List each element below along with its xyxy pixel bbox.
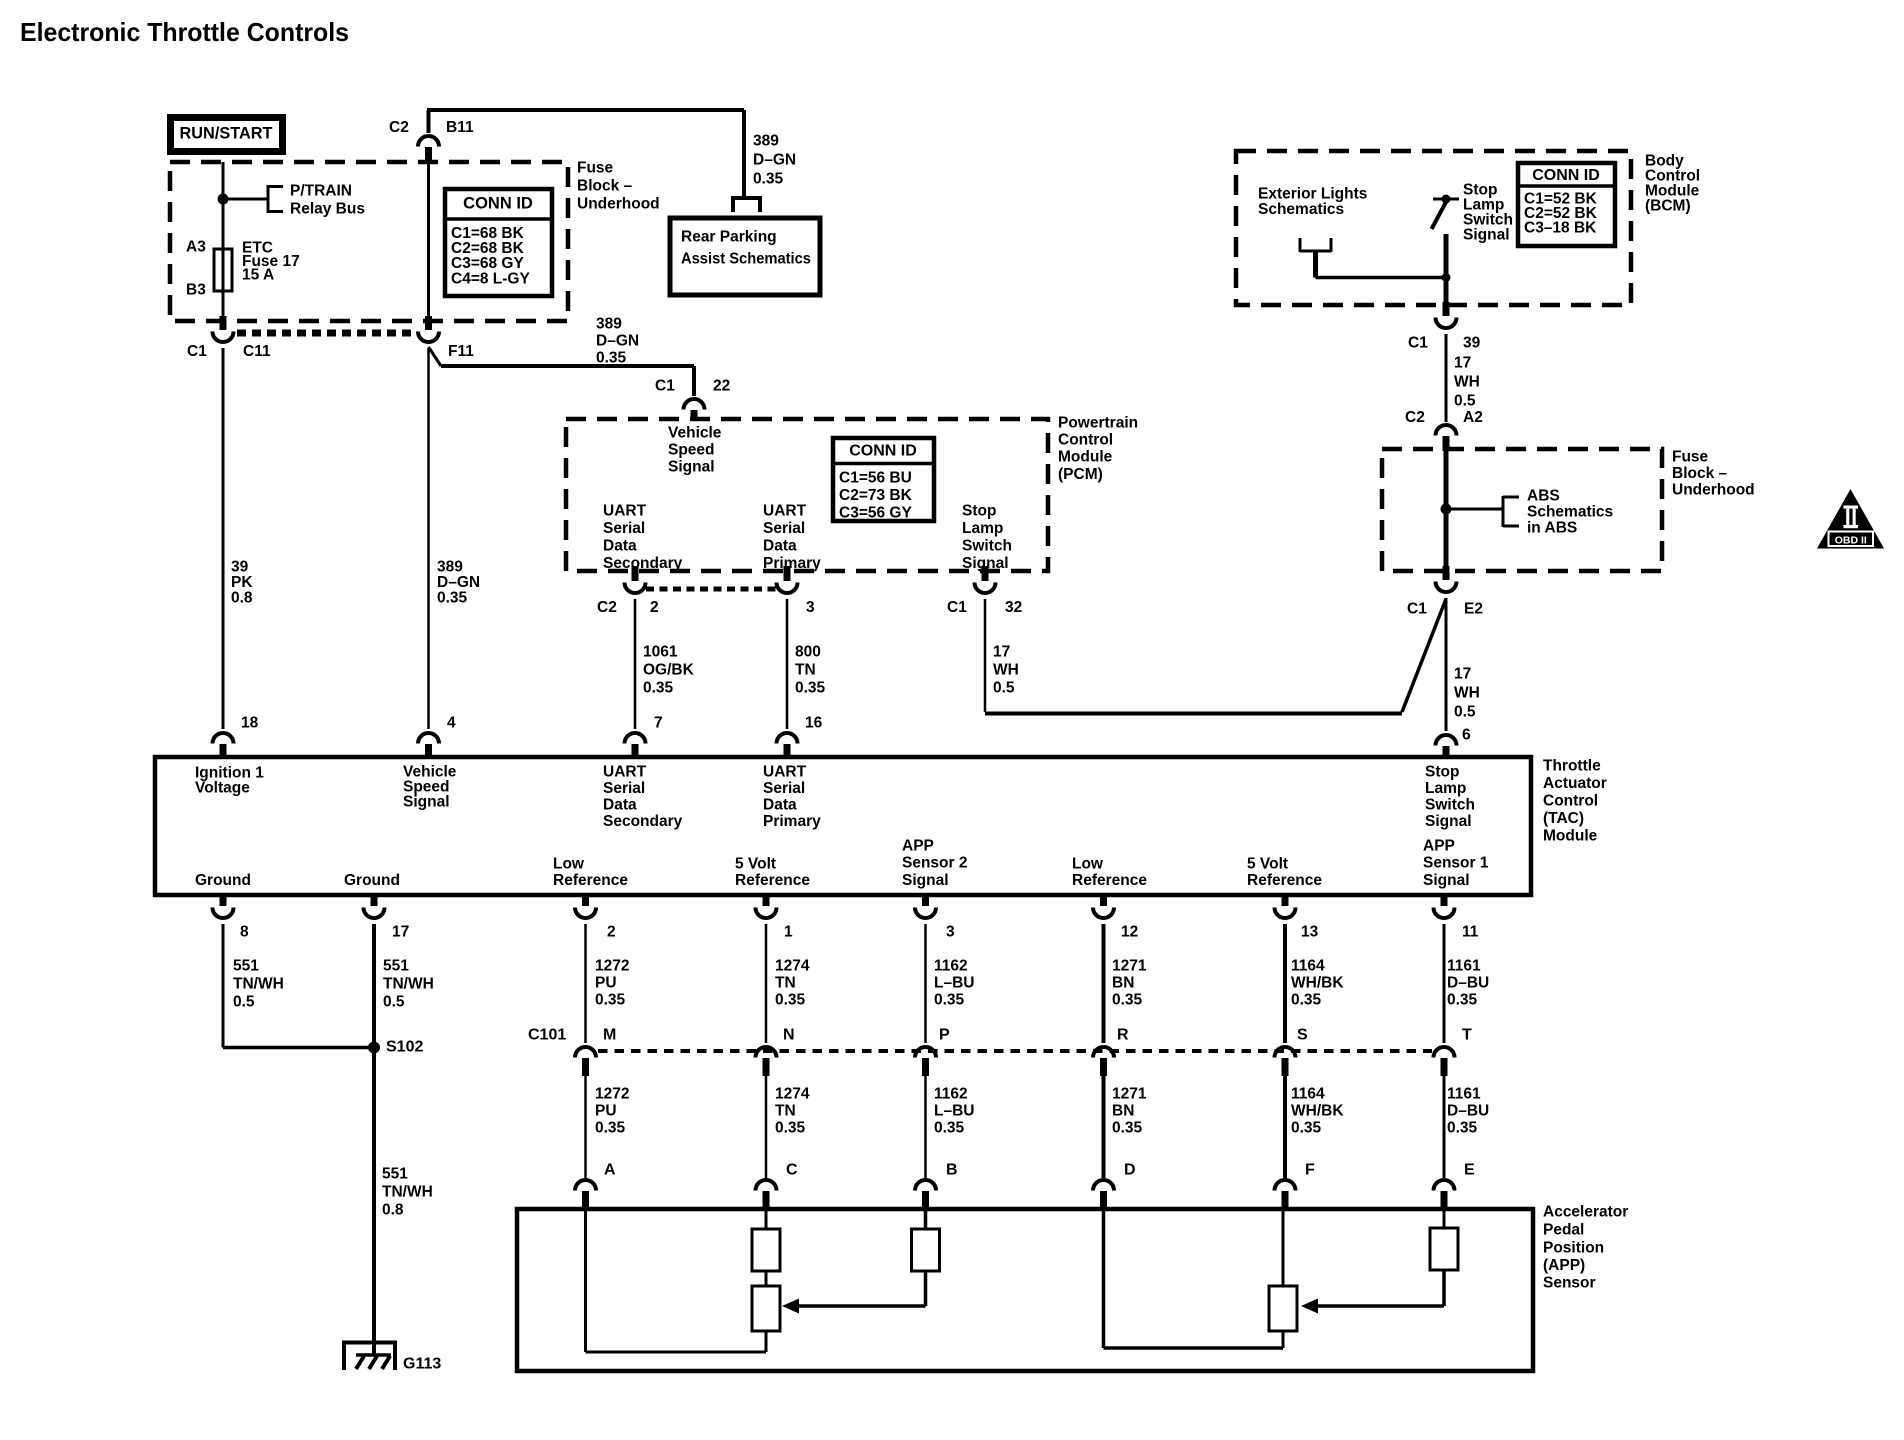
dotted connector tie line C11-F11 [237, 330, 417, 337]
svg-text:Block –: Block – [1672, 465, 1728, 482]
svg-text:Ground: Ground [195, 872, 251, 889]
svg-text:TN: TN [775, 974, 796, 991]
connector C1/E2 (fuse block right output) [1436, 566, 1457, 592]
svg-text:TN: TN [795, 661, 816, 678]
svg-text:7: 7 [654, 714, 663, 731]
connector C101 terminal T [1434, 1047, 1455, 1076]
potentiometer wiper target: APP sensor 2 [752, 1286, 780, 1352]
label: 551 TN/WH 0.5 (pin 8) [233, 957, 284, 1010]
svg-text:C: C [786, 1162, 798, 1179]
svg-text:Voltage: Voltage [195, 779, 250, 796]
terminal bracket into rear parking assist [731, 198, 762, 212]
svg-text:Accelerator: Accelerator [1543, 1203, 1628, 1220]
connector 18 (TAC ignition input) [213, 733, 234, 759]
label: 1164 WH/BK 0.35 (upper) [1291, 957, 1344, 1008]
svg-text:Data: Data [603, 796, 637, 813]
svg-text:S: S [1297, 1027, 1308, 1044]
connector C1/22 (PCM vehicle speed input) [684, 399, 705, 421]
svg-text:1161: 1161 [1447, 957, 1481, 974]
svg-text:0.35: 0.35 [1291, 1119, 1322, 1136]
wire: 389 D-GN down to TAC pin 4 [427, 348, 430, 729]
svg-text:Module: Module [1058, 448, 1113, 465]
svg-text:389: 389 [753, 132, 779, 149]
svg-text:Signal: Signal [902, 872, 949, 889]
svg-text:TN: TN [775, 1102, 796, 1119]
svg-text:Primary: Primary [763, 813, 821, 830]
svg-text:CONN ID: CONN ID [849, 443, 917, 460]
svg-text:UART: UART [603, 502, 647, 519]
svg-text:Block –: Block – [577, 177, 633, 194]
svg-text:C1: C1 [947, 599, 967, 616]
svg-text:Reference: Reference [1072, 872, 1147, 889]
svg-text:OBD II: OBD II [1835, 535, 1867, 547]
label: Exterior Lights Schematics [1258, 185, 1367, 218]
svg-text:1162: 1162 [934, 1085, 968, 1102]
label: 1274 TN 0.35 (lower) [775, 1085, 810, 1136]
svg-text:0.5: 0.5 [1454, 392, 1476, 409]
label: UART Serial Data Secondary (TAC) [603, 763, 683, 830]
svg-text:39: 39 [231, 558, 249, 575]
label: APP Sensor 2 Signal [902, 837, 967, 889]
svg-text:32: 32 [1005, 599, 1022, 616]
svg-text:1271: 1271 [1112, 1085, 1147, 1102]
svg-text:WH: WH [993, 661, 1019, 678]
label: 389 D-GN 0.35 (top) [753, 132, 796, 187]
connector APP terminal B [915, 1180, 936, 1211]
connector C2/A2 (fuse block underhood right) [1436, 425, 1457, 451]
svg-text:D: D [1124, 1162, 1136, 1179]
svg-text:5 Volt: 5 Volt [1247, 855, 1288, 872]
RUN/START hot-in-run box [171, 118, 283, 152]
label: 1164 WH/BK 0.35 (lower) [1291, 1085, 1344, 1136]
svg-text:Exterior Lights: Exterior Lights [1258, 185, 1367, 202]
svg-text:Control: Control [1058, 431, 1113, 448]
svg-text:T: T [1462, 1027, 1472, 1044]
wire: 1271 BN 0.35 (C101 to APP D) [1102, 1074, 1106, 1178]
connector C101 terminal P [915, 1047, 936, 1076]
svg-text:0.5: 0.5 [233, 993, 255, 1010]
svg-text:WH: WH [1454, 373, 1480, 390]
splice S102 [368, 1042, 380, 1054]
wire: 17 WH from E2 down to TAC pin 6 [1445, 598, 1448, 731]
svg-text:15 A: 15 A [242, 266, 274, 283]
svg-text:Position: Position [1543, 1239, 1604, 1256]
svg-text:Primary: Primary [763, 555, 821, 572]
connector C2/2 (PCM uart secondary) [625, 566, 646, 593]
label: UART Serial Data Primary (PCM) [763, 502, 821, 572]
wire: 1164 WH/BK 0.35 (TAC to C101) [1283, 924, 1287, 1043]
svg-text:(PCM): (PCM) [1058, 466, 1103, 483]
svg-text:1164: 1164 [1291, 1085, 1325, 1102]
label: 1272 PU 0.35 (upper) [595, 957, 629, 1008]
connector C2/B11 (fuse block underhood) [418, 136, 439, 164]
connector 12 (TAC bottom) [1093, 893, 1114, 918]
wire: 17 WH stop lamp from PCM pin 32 [985, 599, 1402, 714]
svg-text:Sensor 1: Sensor 1 [1423, 854, 1489, 871]
svg-text:D–BU: D–BU [1447, 974, 1489, 991]
svg-text:Schematics: Schematics [1258, 201, 1344, 218]
wire: 1271 BN 0.35 (TAC to C101) [1102, 924, 1106, 1043]
svg-text:BN: BN [1112, 974, 1134, 991]
svg-text:Signal: Signal [668, 458, 715, 475]
wire: stop lamp switch output (BCM internal) [1444, 234, 1449, 308]
svg-text:D–GN: D–GN [753, 151, 796, 168]
svg-text:PU: PU [595, 1102, 617, 1119]
label: 800 TN 0.35 [795, 643, 826, 696]
wire: 389 D-GN feed from fuse block to rear parking (top run) [427, 110, 744, 133]
svg-text:P: P [939, 1027, 950, 1044]
svg-text:5 Volt: 5 Volt [735, 855, 776, 872]
label: Fuse Block - Underhood (left) [577, 159, 660, 212]
svg-text:C1: C1 [1408, 334, 1428, 351]
svg-text:C101: C101 [528, 1027, 566, 1044]
svg-text:1274: 1274 [775, 1085, 810, 1102]
svg-text:Stop: Stop [1425, 763, 1459, 780]
wire: 800 TN uart primary [786, 599, 789, 729]
connector C1/C11 (ignition feed) [213, 316, 234, 342]
svg-text:389: 389 [437, 558, 463, 575]
label: 1272 PU 0.35 (lower) [595, 1085, 629, 1136]
svg-text:Actuator: Actuator [1543, 775, 1607, 792]
wire: 389 D-GN inside fuse block (B11 to F11) [427, 160, 430, 320]
label: ABS Schematics in ABS [1527, 487, 1613, 536]
svg-text:551: 551 [383, 957, 409, 974]
svg-text:Schematics: Schematics [1527, 503, 1613, 520]
svg-text:S102: S102 [386, 1039, 423, 1056]
label: Throttle Actuator Control (TAC) Module [1543, 757, 1607, 844]
svg-text:1274: 1274 [775, 957, 810, 974]
label: UART Serial Data Secondary (PCM) [603, 502, 683, 572]
svg-text:0.5: 0.5 [383, 993, 405, 1010]
label: P/TRAIN Relay Bus [290, 182, 365, 217]
svg-text:Fuse: Fuse [577, 159, 614, 176]
svg-text:1: 1 [784, 923, 793, 940]
label: Accelerator Pedal Position (APP) Sensor [1543, 1203, 1628, 1291]
svg-text:16: 16 [805, 714, 823, 731]
dashed connector line C101 [598, 1049, 1432, 1053]
svg-text:A: A [604, 1162, 616, 1179]
svg-text:Signal: Signal [1423, 872, 1470, 889]
wire: stop lamp feed through fuse block (right) [1444, 451, 1449, 566]
svg-text:1271: 1271 [1112, 957, 1147, 974]
svg-text:(TAC): (TAC) [1543, 810, 1584, 827]
svg-text:0.35: 0.35 [437, 589, 468, 606]
svg-text:Serial: Serial [763, 520, 805, 537]
wire: 1274 TN 0.35 (TAC to C101) [765, 924, 768, 1043]
svg-text:17: 17 [993, 643, 1010, 660]
svg-text:Vehicle: Vehicle [668, 424, 722, 441]
label: 1271 BN 0.35 (lower) [1112, 1085, 1147, 1136]
svg-text:Signal: Signal [1463, 226, 1510, 243]
svg-text:1162: 1162 [934, 957, 968, 974]
label: 17 WH 0.5 (PCM pin 32) [993, 643, 1019, 696]
svg-text:Pedal: Pedal [1543, 1221, 1584, 1238]
connector APP terminal D [1093, 1180, 1114, 1211]
wire: 1161 D–BU 0.35 (C101 to APP E) [1443, 1074, 1446, 1178]
svg-text:Serial: Serial [603, 520, 645, 537]
svg-text:E2: E2 [1464, 600, 1483, 617]
svg-text:D–GN: D–GN [437, 574, 480, 591]
svg-text:Electronic Throttle Controls: Electronic Throttle Controls [20, 17, 349, 47]
connector C101 terminal N [756, 1047, 777, 1076]
svg-text:0.8: 0.8 [231, 589, 253, 606]
svg-text:N: N [783, 1027, 795, 1044]
wire: drop to rear parking assist [742, 110, 746, 196]
svg-text:Assist Schematics: Assist Schematics [681, 250, 811, 267]
label: 389 D-GN 0.35 (vertical run) [437, 558, 480, 606]
wire: 17 WH from BCM to fuse block [1445, 334, 1448, 422]
svg-text:C2: C2 [1405, 409, 1425, 426]
svg-text:UART: UART [763, 502, 807, 519]
svg-text:Sensor 2: Sensor 2 [902, 854, 967, 871]
svg-text:13: 13 [1301, 923, 1319, 940]
connector 2 (TAC bottom) [575, 893, 596, 918]
junction dot to ABS branch [1441, 504, 1452, 515]
svg-text:6: 6 [1462, 726, 1471, 743]
svg-text:Reference: Reference [553, 872, 628, 889]
svg-text:L–BU: L–BU [934, 974, 974, 991]
svg-text:in ABS: in ABS [1527, 519, 1577, 536]
wire: 1162 L–BU 0.35 (C101 to APP B) [924, 1074, 927, 1178]
svg-text:PU: PU [595, 974, 617, 991]
svg-text:Relay Bus: Relay Bus [290, 200, 365, 217]
connector 11 (TAC bottom) [1434, 893, 1455, 918]
svg-text:M: M [603, 1027, 616, 1044]
OBD II marker symbol [1817, 489, 1884, 549]
label: Vehicle Speed Signal (TAC) [403, 763, 457, 810]
svg-text:17: 17 [1454, 665, 1471, 682]
stop lamp switch (BCM internal) [1432, 195, 1460, 230]
svg-text:1272: 1272 [595, 957, 629, 974]
svg-text:8: 8 [240, 923, 249, 940]
wire + bracket to ABS schematics [1446, 496, 1519, 527]
connector 1 (TAC bottom) [756, 893, 777, 918]
connector 16 (TAC uart primary) [777, 733, 798, 759]
label: Stop Lamp Switch Signal (BCM) [1463, 181, 1513, 243]
P/TRAIN relay bus terminal bracket [268, 185, 283, 213]
svg-text:Sensor: Sensor [1543, 1274, 1596, 1291]
connector 6 (TAC stop lamp input) [1436, 735, 1457, 759]
svg-text:1161: 1161 [1447, 1085, 1481, 1102]
svg-text:2: 2 [607, 923, 616, 940]
svg-text:UART: UART [603, 763, 647, 780]
label: Ignition 1 Voltage [195, 764, 264, 796]
wire: 389 D-GN branch from F11 to PCM C1/22 [429, 347, 695, 396]
svg-text:3: 3 [946, 923, 955, 940]
Rear Parking Assist Schematics box [670, 218, 820, 295]
label: 1161 D–BU 0.35 (lower) [1447, 1085, 1489, 1136]
svg-text:E: E [1464, 1162, 1475, 1179]
wire: 1272 PU 0.35 (TAC to C101) [584, 924, 587, 1043]
label: 1271 BN 0.35 (upper) [1112, 957, 1147, 1008]
wire: 1161 D–BU 0.35 (TAC to C101) [1443, 924, 1446, 1043]
Body Control Module dashed box [1236, 151, 1631, 305]
svg-text:C2=73 BK: C2=73 BK [839, 487, 913, 504]
svg-text:0.35: 0.35 [595, 991, 626, 1008]
svg-text:Speed: Speed [668, 441, 715, 458]
svg-text:Fuse: Fuse [1672, 448, 1709, 465]
label: 5 Volt Reference (TAC pin 1) [735, 855, 810, 889]
svg-text:Switch: Switch [962, 537, 1012, 554]
svg-text:Underhood: Underhood [1672, 481, 1755, 498]
svg-text:C1: C1 [1407, 600, 1427, 617]
svg-text:BN: BN [1112, 1102, 1134, 1119]
svg-text:17: 17 [1454, 354, 1471, 371]
wire: 1274 TN 0.35 (C101 to APP C) [765, 1074, 768, 1178]
fuse block underhood (left) dashed box [170, 162, 568, 321]
svg-text:C4=8 L-GY: C4=8 L-GY [451, 270, 530, 287]
svg-text:0.5: 0.5 [993, 679, 1015, 696]
label: 1161 D–BU 0.35 (upper) [1447, 957, 1489, 1008]
svg-text:0.35: 0.35 [934, 1119, 965, 1136]
wire: 551 TN/WH ground pin 8 [223, 924, 374, 1048]
wire: ignition feed inside fuse block (x=223) [222, 162, 225, 319]
connector 8 (TAC bottom) [213, 893, 234, 918]
label: 551 TN/WH 0.8 [382, 1165, 433, 1218]
fuse ETC Fuse 17 15 A (symbol) [214, 249, 232, 291]
svg-text:R: R [1117, 1027, 1129, 1044]
svg-text:0.35: 0.35 [795, 679, 826, 696]
label: 1162 L–BU 0.35 (upper) [934, 957, 974, 1008]
resistor + wiper arm: APP sensor 1 signal (E) [1301, 1209, 1458, 1314]
connector APP terminal A [575, 1180, 596, 1211]
svg-text:389: 389 [596, 315, 622, 332]
svg-text:WH: WH [1454, 684, 1480, 701]
svg-text:CONN ID: CONN ID [463, 195, 533, 213]
connector 4 (TAC vss input) [418, 733, 439, 759]
svg-text:TN/WH: TN/WH [383, 975, 434, 992]
svg-text:1272: 1272 [595, 1085, 629, 1102]
svg-text:Reference: Reference [1247, 872, 1322, 889]
label: APP Sensor 1 Signal [1423, 837, 1489, 889]
wire: 551 TN/WH to ground G113 [372, 1049, 376, 1355]
svg-text:0.35: 0.35 [753, 170, 784, 187]
svg-text:B11: B11 [446, 119, 474, 136]
connector C1/32 (PCM stop lamp) [975, 566, 996, 593]
dotted connector tie line PCM pins 2-3 [646, 587, 776, 592]
svg-text:L–BU: L–BU [934, 1102, 974, 1119]
svg-text:A2: A2 [1463, 409, 1483, 426]
svg-text:TN/WH: TN/WH [382, 1183, 433, 1200]
svg-text:18: 18 [241, 714, 259, 731]
fuse block underhood (right) dashed box [1382, 449, 1662, 571]
svg-text:Serial: Serial [763, 780, 805, 797]
svg-text:F: F [1305, 1162, 1315, 1179]
label: UART Serial Data Primary (TAC) [763, 763, 821, 830]
svg-text:C3=56 GY: C3=56 GY [839, 504, 912, 521]
label: Stop Lamp Switch Signal (TAC) [1425, 763, 1475, 830]
svg-text:Data: Data [763, 796, 797, 813]
connector 13 (TAC bottom) [1275, 893, 1296, 918]
wire: APP sensor 2 low reference (A) [586, 1209, 767, 1352]
svg-text:0.35: 0.35 [775, 991, 806, 1008]
wire: 1164 WH/BK 0.35 (C101 to APP F) [1283, 1074, 1287, 1178]
svg-text:Low: Low [553, 855, 585, 872]
label: Body Control Module (BCM) [1645, 152, 1700, 214]
wire: APP sensor 1 low reference (D) [1104, 1209, 1284, 1348]
svg-text:800: 800 [795, 643, 821, 660]
label: Low Reference (TAC pin 2) [553, 855, 628, 889]
svg-text:Throttle: Throttle [1543, 757, 1601, 774]
svg-text:Reference: Reference [735, 872, 810, 889]
Powertrain Control Module dashed box [566, 419, 1048, 571]
label: 1061 OG/BK 0.35 [643, 643, 695, 696]
label: Powertrain Control Module (PCM) [1058, 414, 1138, 483]
label: 5 Volt Reference (TAC pin 13) [1247, 855, 1322, 889]
label: 389 D-GN 0.35 (branch to PCM) [596, 315, 639, 366]
svg-text:B3: B3 [186, 281, 206, 298]
connector C101 terminal R [1093, 1047, 1114, 1076]
CONN ID table (PCM) [833, 438, 934, 521]
connector F11 (vehicle speed feed) [418, 316, 439, 342]
svg-text:Underhood: Underhood [577, 195, 660, 212]
svg-text:C2: C2 [597, 599, 617, 616]
svg-text:0.35: 0.35 [1112, 991, 1143, 1008]
wire to P/TRAIN relay bus [223, 198, 268, 201]
label: 551 TN/WH 0.5 (pin 17) [383, 957, 434, 1010]
svg-text:551: 551 [382, 1165, 408, 1182]
label: 17 WH 0.5 (BCM to fuse block) [1454, 354, 1480, 409]
svg-text:Ground: Ground [344, 872, 400, 889]
wire: 1061 OG/BK uart secondary [634, 599, 637, 729]
svg-text:2: 2 [650, 599, 659, 616]
svg-text:0.35: 0.35 [1447, 991, 1478, 1008]
svg-text:WH/BK: WH/BK [1291, 1102, 1344, 1119]
svg-text:(APP): (APP) [1543, 1257, 1585, 1274]
CONN ID table (fuse block underhood) [445, 189, 552, 296]
wire: 1162 L–BU 0.35 (TAC to C101) [924, 924, 927, 1043]
svg-text:Rear Parking: Rear Parking [681, 228, 777, 245]
svg-text:(BCM): (BCM) [1645, 197, 1691, 214]
svg-text:0.35: 0.35 [1447, 1119, 1478, 1136]
svg-text:0.35: 0.35 [596, 349, 627, 366]
label: 1162 L–BU 0.35 (lower) [934, 1085, 974, 1136]
svg-text:Secondary: Secondary [603, 555, 683, 572]
label: 1274 TN 0.35 (upper) [775, 957, 810, 1008]
svg-text:Secondary: Secondary [603, 813, 683, 830]
svg-text:CONN ID: CONN ID [1532, 167, 1600, 184]
svg-text:1061: 1061 [643, 643, 678, 660]
resistor: APP sensor 2 element [752, 1209, 780, 1286]
svg-text:39: 39 [1463, 334, 1481, 351]
label: ETC Fuse 17 15 A [242, 239, 300, 283]
svg-text:Serial: Serial [603, 780, 645, 797]
svg-text:C3–18 BK: C3–18 BK [1524, 219, 1597, 236]
svg-text:PK: PK [231, 574, 253, 591]
svg-text:OG/BK: OG/BK [643, 661, 695, 678]
potentiometer wiper target: APP sensor 1 (F) [1269, 1209, 1297, 1348]
svg-text:TN/WH: TN/WH [233, 975, 284, 992]
connector APP terminal F [1275, 1180, 1296, 1211]
svg-text:22: 22 [713, 377, 730, 394]
label: Fuse Block - Underhood (right) [1672, 448, 1755, 498]
connector 17 (TAC bottom) [364, 893, 385, 918]
connector C101 terminal M [575, 1047, 596, 1076]
svg-text:0.35: 0.35 [1112, 1119, 1143, 1136]
svg-text:APP: APP [902, 837, 934, 854]
label: 17 WH 0.5 (E2 to TAC) [1454, 665, 1480, 720]
svg-text:0.35: 0.35 [775, 1119, 806, 1136]
Accelerator Pedal Position (APP) Sensor box [517, 1209, 1533, 1371]
svg-text:F11: F11 [448, 343, 474, 360]
exterior lights branch bracket [1300, 238, 1451, 282]
svg-text:Low: Low [1072, 855, 1104, 872]
splice diagonal from stop-lamp run up to E2 [1402, 599, 1446, 712]
svg-text:D–BU: D–BU [1447, 1102, 1489, 1119]
svg-text:C1: C1 [655, 377, 675, 394]
svg-text:551: 551 [233, 957, 259, 974]
svg-text:C1=56 BU: C1=56 BU [839, 469, 912, 486]
